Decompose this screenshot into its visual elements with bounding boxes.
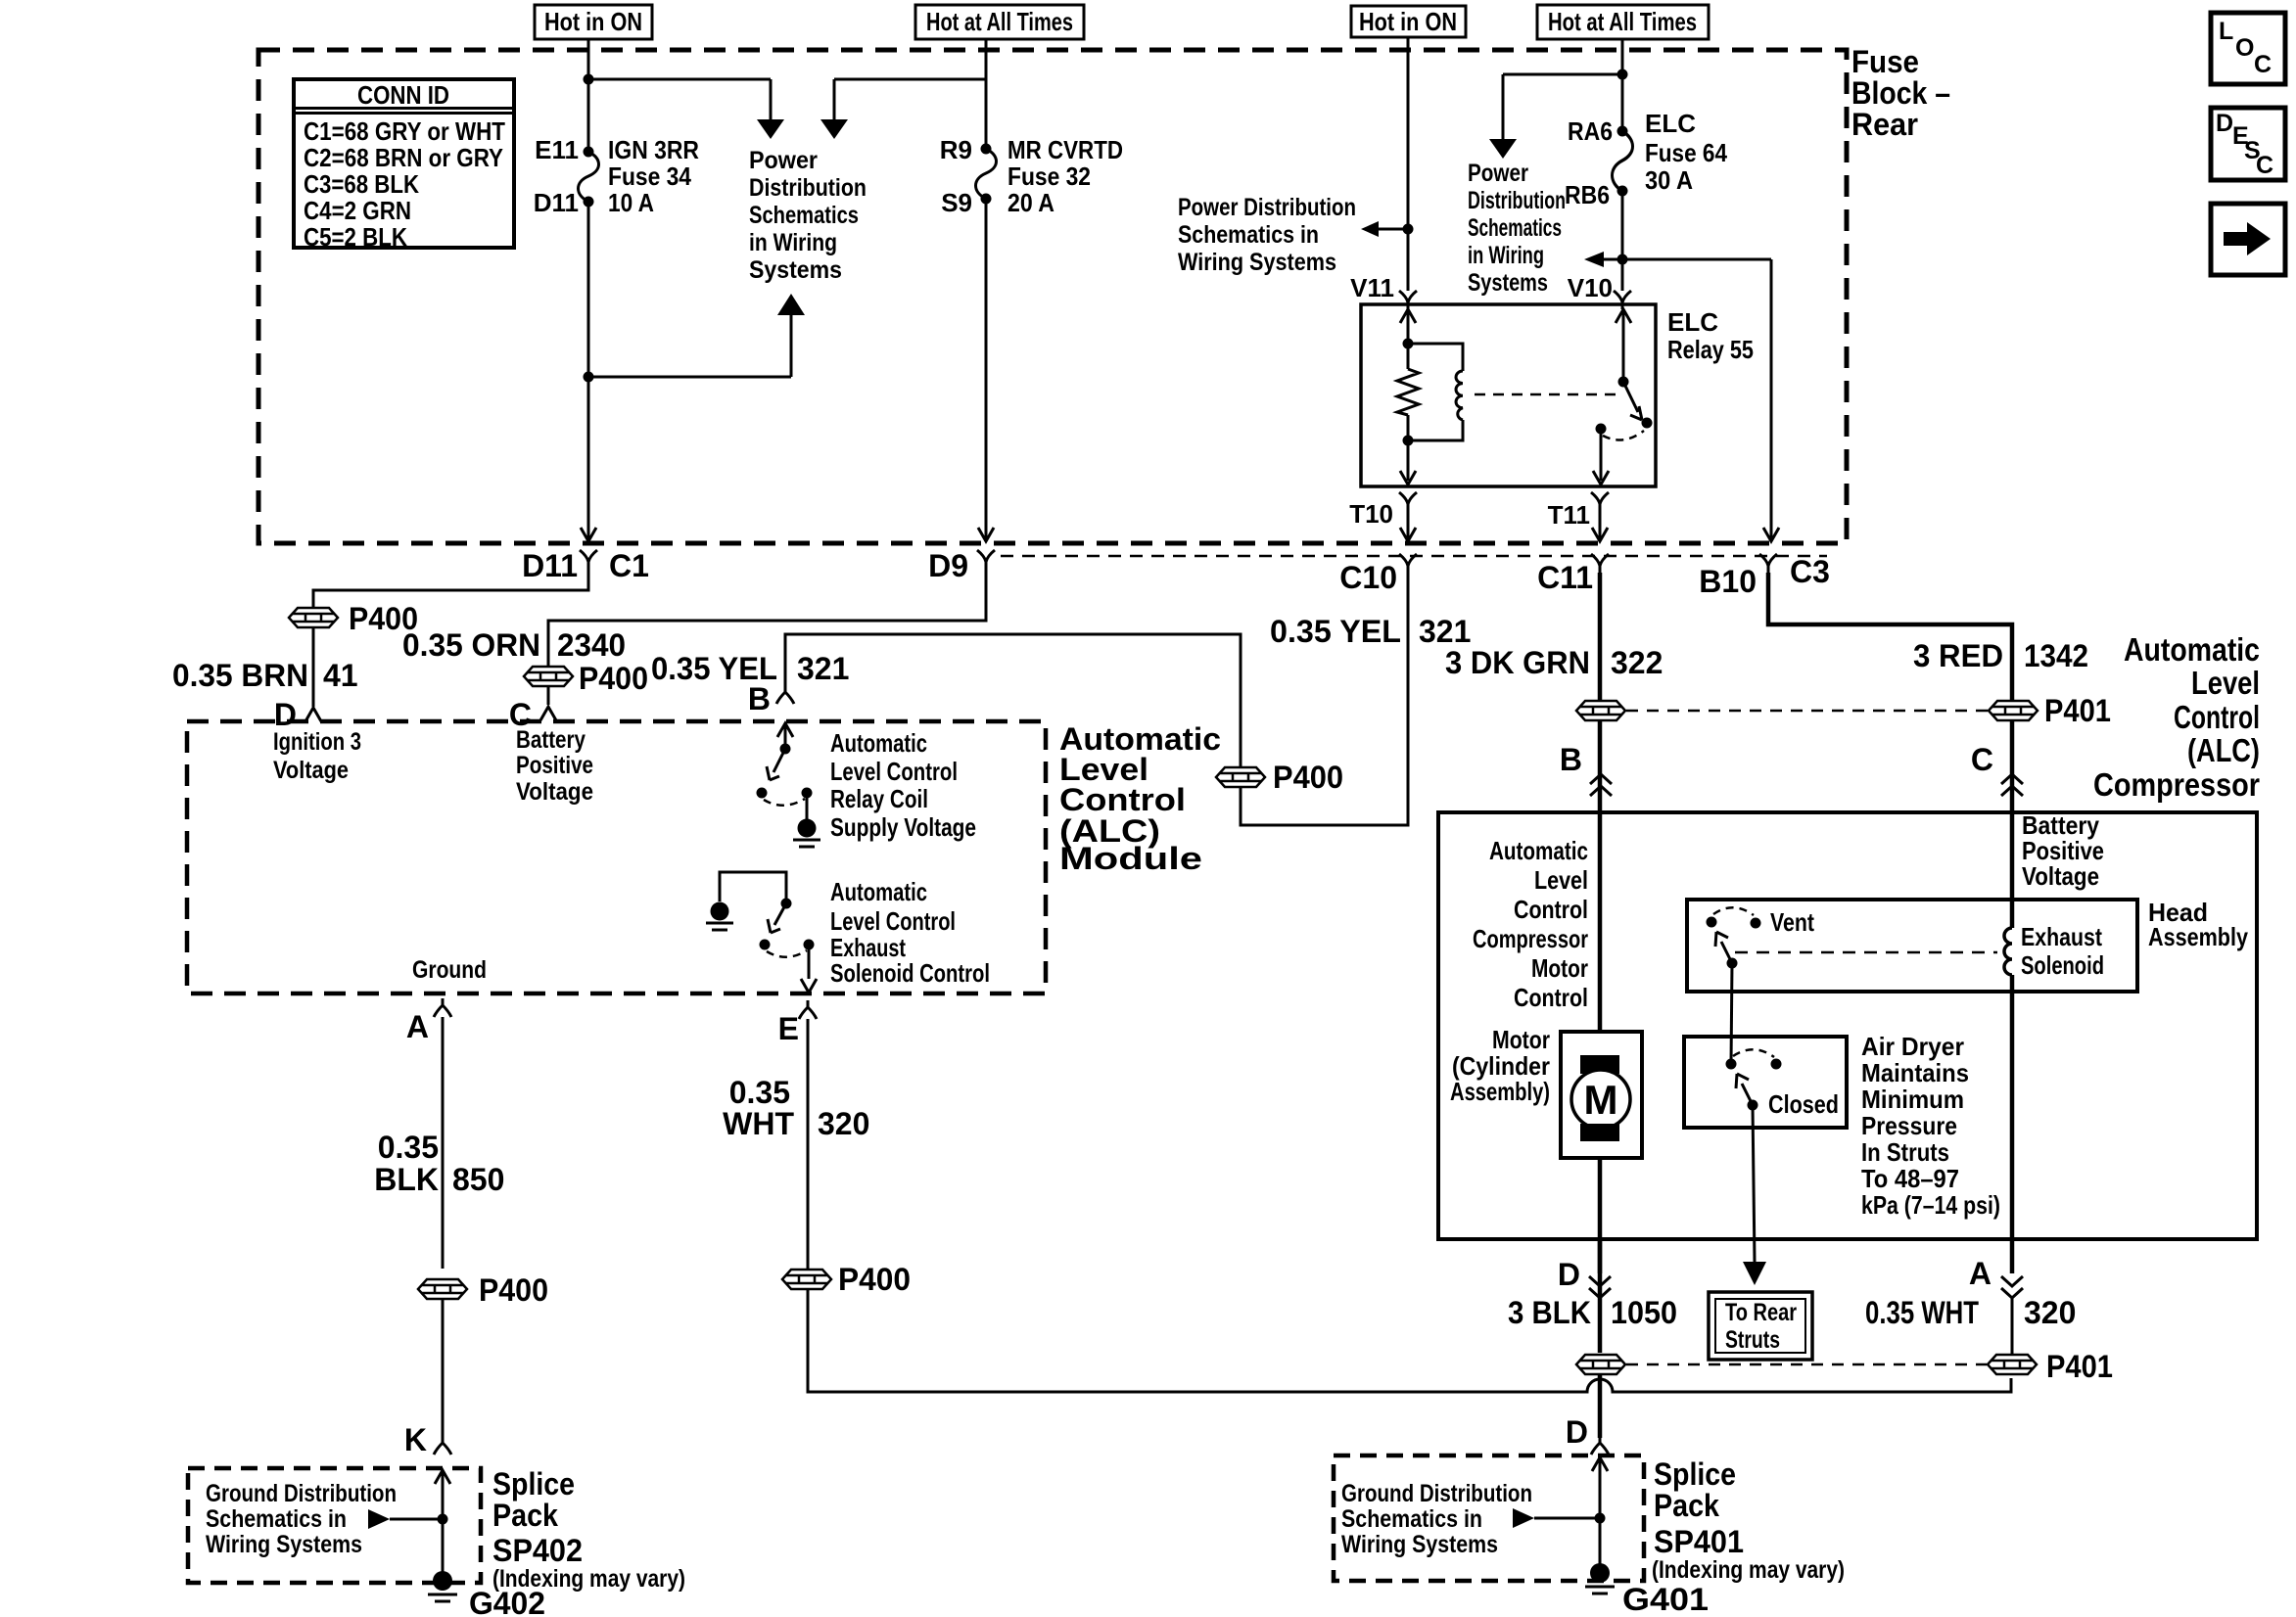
svg-text:Control: Control (2174, 699, 2260, 735)
svg-text:C4=2 GRN: C4=2 GRN (304, 196, 411, 225)
svg-text:1342: 1342 (2024, 638, 2088, 673)
wire P400 YEL up and across to pin B (785, 634, 1241, 766)
wire into SP401 with up arrow (1592, 1457, 1608, 1568)
wire exhaust solenoid down to pin A (2010, 975, 2015, 1273)
svg-text:Automatic: Automatic (830, 728, 927, 758)
wire P400 to pin C (547, 687, 550, 705)
fuse F34 IGN 3RR terminal E11 (584, 147, 594, 158)
label Splice Pack SP401 (Indexing may vary) (1652, 1456, 1845, 1584)
fuse F64 ELC terminal RA6 (1617, 126, 1628, 137)
fuse F64 terminal RB6 (1617, 186, 1628, 197)
motor commutator bottom (1580, 1124, 1619, 1141)
svg-text:Schematics in: Schematics in (1178, 221, 1319, 249)
actuation dashed link to exhaust solenoid (1735, 951, 1997, 954)
svg-text:O: O (2235, 34, 2254, 62)
vent switch travel arc (1713, 907, 1754, 915)
S2 travel arc (767, 950, 807, 957)
arrow into fuse block edge at B10 (1763, 528, 1779, 541)
svg-text:Automatic: Automatic (2124, 631, 2260, 668)
pin B chevrons (1590, 774, 1612, 796)
svg-text:V11: V11 (1350, 273, 1394, 302)
connector V11 (1399, 291, 1417, 309)
wire C11 down to P401 (DK GRN) (1598, 573, 1603, 700)
wire motor to pin D (1598, 1158, 1603, 1273)
svg-text:IGN 3RR: IGN 3RR (608, 135, 699, 164)
svg-text:C2=68 BRN or GRY: C2=68 BRN or GRY (304, 143, 503, 172)
arrow into fuse block edge at D9 (978, 528, 994, 541)
ALC module dashed box (187, 721, 1046, 993)
svg-text:Wiring Systems: Wiring Systems (1341, 1531, 1498, 1558)
svg-text:Ground Distribution: Ground Distribution (1341, 1480, 1532, 1507)
label Exhaust Solenoid (2021, 922, 2104, 980)
label circuit 0.35 BRN 41 (172, 658, 358, 693)
wire branch from Hot at All Times to power distribution arrow (834, 79, 986, 119)
svg-text:Pack: Pack (1654, 1488, 1719, 1523)
legend DESC box (2211, 108, 2285, 180)
svg-text:Motor: Motor (1492, 1025, 1550, 1054)
svg-text:L: L (2219, 18, 2233, 45)
arrow down to Power Distribution (757, 119, 784, 139)
svg-text:(ALC): (ALC) (2187, 732, 2260, 768)
arrow left to Power Distribution Schematics (1361, 221, 1379, 237)
svg-text:321: 321 (797, 651, 849, 686)
svg-text:321: 321 (1419, 614, 1471, 649)
wire S2 output to pin E (808, 945, 811, 979)
svg-text:P400: P400 (1273, 760, 1343, 795)
relay switch moving contact (1642, 418, 1653, 429)
svg-text:G401: G401 (1622, 1582, 1709, 1617)
connector T10 (1399, 492, 1417, 511)
label circuit 3 DK GRN 322 (1445, 645, 1663, 680)
svg-text:C11: C11 (1537, 560, 1593, 595)
wire below resistor (1407, 415, 1410, 481)
pin A chevrons (2001, 1276, 2023, 1298)
svg-text:RB6: RB6 (1565, 180, 1610, 209)
svg-text:To 48–97: To 48–97 (1861, 1164, 1959, 1193)
svg-text:ELC: ELC (1645, 109, 1696, 138)
svg-text:Voltage: Voltage (2022, 861, 2099, 891)
svg-text:SP402: SP402 (492, 1533, 583, 1568)
svg-text:Hot in ON: Hot in ON (1359, 7, 1457, 36)
svg-text:Exhaust: Exhaust (2021, 922, 2102, 951)
arrow exit at pin E (801, 979, 817, 993)
svg-text:Motor: Motor (1531, 953, 1588, 983)
label fuse 32 (940, 135, 1123, 217)
motor box (1561, 1032, 1642, 1158)
svg-text:C1=68 GRY or WHT: C1=68 GRY or WHT (304, 116, 505, 146)
resistor (relay coil suppression) (1397, 369, 1419, 415)
label fuse 34 (534, 135, 699, 217)
wire pin E down to P400 (807, 1019, 810, 1269)
svg-text:Battery: Battery (516, 726, 586, 754)
svg-text:Control: Control (1514, 983, 1588, 1012)
connector pin A (434, 998, 451, 1017)
power tag "Hot in ON" box 1 (535, 5, 652, 39)
svg-text:D: D (274, 697, 297, 732)
arrow to rear struts (1743, 1262, 1766, 1285)
wire B10 drop down to fuse block edge (1770, 259, 1773, 538)
label Splice Pack SP402 (Indexing may vary) (492, 1466, 685, 1593)
wire from Hot in ON box1 down to fuse 34 (587, 39, 590, 147)
svg-text:Maintains: Maintains (1861, 1058, 1969, 1087)
svg-text:BLK: BLK (374, 1162, 439, 1197)
svg-text:ELC: ELC (1667, 307, 1718, 337)
wire relay left branch (1407, 309, 1410, 369)
svg-text:R9: R9 (940, 135, 972, 164)
svg-text:1050: 1050 (1611, 1295, 1677, 1330)
connector V10 (1614, 291, 1631, 309)
svg-text:Control: Control (1514, 895, 1588, 924)
svg-text:322: 322 (1611, 645, 1663, 680)
label circuit 0.35 YEL 321 (C10) (1270, 614, 1471, 649)
ground G402 (428, 1571, 457, 1601)
svg-text:Distribution: Distribution (749, 174, 867, 202)
svg-text:0.35 BRN: 0.35 BRN (172, 658, 308, 693)
svg-text:Power: Power (1468, 160, 1528, 187)
wire branch left to arrow (1503, 74, 1622, 139)
svg-text:0.35 YEL: 0.35 YEL (1270, 614, 1401, 649)
svg-text:(Indexing may vary): (Indexing may vary) (1652, 1556, 1845, 1584)
switch S1 blade (767, 749, 785, 780)
wire P401 RED to compressor pin C (2010, 721, 2015, 928)
svg-text:D11: D11 (522, 548, 578, 583)
svg-text:T11: T11 (1548, 500, 1590, 530)
svg-text:RA6: RA6 (1568, 116, 1613, 146)
svg-text:Struts: Struts (1725, 1326, 1780, 1354)
wire across to B10 drop with left arrow (1604, 258, 1771, 261)
arrow up to Power Distribution (777, 294, 805, 315)
wire from Hot at All Times box2 down to fuse 32 (985, 39, 988, 144)
svg-text:Schematics: Schematics (1468, 214, 1562, 242)
svg-text:Wiring Systems: Wiring Systems (206, 1531, 362, 1558)
svg-text:D11: D11 (534, 188, 579, 217)
svg-text:C: C (2254, 51, 2272, 78)
splice pack SP402 dashed box (188, 1468, 481, 1583)
ground G401 (1585, 1563, 1615, 1594)
S1 fixed contact right (802, 788, 813, 799)
arrow down to Power Distribution (V10 side) (1489, 139, 1517, 159)
legend LOC box (2211, 13, 2285, 84)
svg-text:C: C (1971, 742, 1993, 777)
svg-text:Ignition 3: Ignition 3 (273, 728, 361, 756)
svg-text:Schematics in: Schematics in (206, 1505, 347, 1533)
connector splice K (434, 1436, 451, 1455)
connector C11 (1591, 554, 1609, 573)
label ELC Relay 55 (1667, 307, 1754, 364)
S1 travel arc (764, 799, 805, 806)
vent switch pivot (1727, 958, 1738, 969)
svg-text:3 RED: 3 RED (1913, 638, 2003, 673)
arrow left at V10 (1584, 252, 1604, 267)
label Automatic Level Control Compressor Motor Control (1473, 836, 1588, 1012)
relay switch fixed contact (1596, 424, 1607, 435)
junction in SP402 (438, 1514, 448, 1525)
wire ground to S2 pivot (720, 872, 786, 903)
motor commutator top (1580, 1055, 1619, 1074)
svg-text:Voltage: Voltage (273, 757, 349, 784)
node relay switch pivot (1618, 377, 1629, 388)
wire relay switch common (1622, 309, 1625, 382)
connector B10/C3 (1759, 554, 1777, 573)
power tag "Hot in ON" box 3 (1351, 6, 1466, 37)
svg-text:P400: P400 (838, 1262, 911, 1297)
svg-text:D9: D9 (928, 548, 968, 583)
svg-text:0.35: 0.35 (729, 1075, 790, 1110)
label Automatic Level Control Relay Coil Supply Voltage (830, 728, 976, 842)
label D11 / C1 (522, 548, 649, 583)
svg-text:Compressor: Compressor (2093, 766, 2260, 803)
splice pack SP401 dashed box (1334, 1455, 1644, 1581)
svg-text:Closed: Closed (1768, 1089, 1839, 1119)
connector D9 (977, 550, 995, 569)
fuse F32 terminal S9 (981, 194, 992, 205)
motor M circle (1571, 1070, 1630, 1129)
svg-text:C1: C1 (609, 548, 649, 583)
svg-text:M: M (1584, 1077, 1618, 1123)
svg-text:Schematics in: Schematics in (1341, 1505, 1482, 1533)
relay switch travel arc (1603, 431, 1644, 439)
svg-text:kPa (7–14 psi): kPa (7–14 psi) (1861, 1190, 2000, 1220)
fuse F64 element (1613, 131, 1633, 191)
node relay coil top (1403, 339, 1414, 349)
svg-text:Wiring Systems: Wiring Systems (1178, 249, 1336, 276)
arrow relay output exit (1593, 471, 1609, 485)
connector pin B of ALC module (776, 685, 794, 704)
svg-text:B: B (748, 681, 771, 716)
svg-text:Splice: Splice (1654, 1456, 1736, 1492)
relay actuation dashed link (1475, 393, 1616, 396)
svg-text:Relay 55: Relay 55 (1667, 335, 1754, 364)
label Fuse Block - Rear (1851, 44, 1950, 142)
wire air dryer down to rear struts (1753, 1105, 1755, 1262)
junction V10 branch (1617, 254, 1628, 265)
svg-text:C5=2 BLK: C5=2 BLK (304, 222, 407, 252)
wire into SP402 with up arrow (435, 1470, 450, 1576)
svg-text:Positive: Positive (516, 752, 593, 779)
svg-text:30 A: 30 A (1645, 165, 1693, 195)
svg-text:A: A (1969, 1256, 1991, 1291)
arrow T11 into edge (1592, 528, 1608, 541)
svg-text:Ground: Ground (412, 956, 487, 984)
svg-text:SP401: SP401 (1654, 1524, 1744, 1559)
svg-text:Solenoid: Solenoid (2021, 950, 2104, 980)
svg-text:Automatic: Automatic (830, 877, 927, 906)
connector C10 (1399, 554, 1417, 573)
arrow relay branch exit (1400, 471, 1416, 485)
connector P401 (DK GRN side) (1576, 701, 1625, 720)
arrow T10 into edge (1400, 528, 1416, 541)
label Automatic Level Control Exhaust Solenoid Control (830, 877, 990, 988)
svg-text:Fuse 64: Fuse 64 (1645, 138, 1727, 167)
vent switch fixed contact left (1707, 917, 1717, 928)
switch S1 relay coil supply: entry arrow (777, 723, 793, 749)
svg-text:Voltage: Voltage (516, 778, 593, 806)
svg-text:in Wiring: in Wiring (749, 229, 837, 256)
wire branch up to Power Distribution text (588, 315, 791, 377)
svg-text:MR CVRTD: MR CVRTD (1007, 135, 1123, 164)
svg-text:320: 320 (2024, 1295, 2076, 1330)
connector P400 (WHT wire) (782, 1270, 831, 1289)
svg-text:Level Control: Level Control (830, 757, 958, 786)
label circuit 0.35 YEL 321 (pin B) (651, 651, 849, 686)
wire T10 to edge (1407, 511, 1410, 538)
svg-text:K: K (404, 1422, 427, 1457)
svg-text:Hot at All Times: Hot at All Times (1548, 7, 1697, 36)
branch arrow in SP402 (390, 1518, 443, 1521)
svg-text:B10: B10 (1699, 564, 1757, 599)
junction in SP401 (1595, 1513, 1606, 1524)
wire from Hot in ON box3 down to V11 (1407, 37, 1410, 291)
relay coil branch entry arrow (1400, 309, 1416, 323)
wire P400 to K (442, 1300, 445, 1436)
svg-text:C3: C3 (1790, 554, 1830, 589)
svg-text:G402: G402 (469, 1586, 545, 1617)
legend forward arrow box (2211, 204, 2285, 275)
air dryer switch pivot (1748, 1100, 1758, 1111)
svg-text:3 BLK: 3 BLK (1508, 1295, 1591, 1330)
relay ELC Relay 55 box (1361, 304, 1656, 486)
svg-text:Compressor: Compressor (1473, 924, 1588, 953)
svg-text:Level: Level (1534, 865, 1588, 895)
label Ground Distribution Schematics in Wiring Systems (SP402) (206, 1480, 397, 1558)
wire stub to left arrow (1379, 228, 1408, 231)
arrow down to Power Distribution (second) (820, 119, 848, 139)
vent switch blade (1715, 932, 1732, 963)
svg-text:Assembly: Assembly (2148, 922, 2248, 951)
svg-text:Block –: Block – (1851, 75, 1950, 111)
branch arrow in SP401 (1534, 1517, 1600, 1520)
svg-text:WHT: WHT (723, 1106, 794, 1141)
connector D11/C1 (580, 550, 597, 569)
wire WHT across bottom with hop to pin A of compressor (808, 1290, 2011, 1392)
label Power Distribution Schematics (left) (749, 147, 867, 284)
fuse F32 MR CVRTD terminal R9 (981, 144, 992, 155)
switch S2 blade (768, 903, 786, 933)
wire pin D to P401 (1598, 1239, 1603, 1353)
air dryer switch travel arc (1733, 1049, 1774, 1057)
wire D11 to P400 (313, 569, 588, 607)
connector P401 (RED side) (1989, 701, 2038, 720)
label Air Dryer Maintains Minimum Pressure In Struts To 48-97 kPa (7-14 psi) (1861, 1032, 2000, 1220)
svg-text:Schematics: Schematics (749, 202, 859, 229)
svg-text:in Wiring: in Wiring (1468, 242, 1544, 269)
svg-text:S9: S9 (941, 188, 972, 217)
label Ground Distribution Schematics in Wiring Systems (SP401) (1341, 1480, 1532, 1558)
svg-text:T10: T10 (1349, 499, 1393, 529)
connector P400 (BLK wire) (418, 1279, 467, 1299)
connector T11 (1591, 492, 1609, 511)
node relay coil bottom (1403, 436, 1414, 446)
wire T11 to edge (1599, 511, 1602, 538)
fuse F34 terminal D11 (584, 197, 594, 208)
svg-text:V10: V10 (1568, 273, 1613, 302)
svg-text:C10: C10 (1339, 560, 1397, 595)
label Battery Positive Voltage (module) (516, 726, 593, 806)
vent switch fixed contact right (1751, 918, 1761, 929)
svg-text:Ground Distribution: Ground Distribution (206, 1480, 397, 1507)
svg-text:C: C (2256, 152, 2273, 179)
relay switch entry arrow (1616, 309, 1631, 323)
svg-text:In Struts: In Struts (1861, 1137, 1949, 1167)
label circuit 0.35 WHT 320 (pin A) (1865, 1295, 2076, 1330)
relay coil L1 (1408, 344, 1463, 440)
svg-text:Systems: Systems (749, 256, 842, 284)
connector P401 (BLK side) (1576, 1355, 1625, 1374)
svg-text:D: D (1566, 1414, 1588, 1450)
power tag "Hot at All Times" box 2 (915, 5, 1084, 39)
svg-text:CONN ID: CONN ID (357, 80, 449, 110)
wire fuse 34 down to connector D11 (587, 202, 590, 538)
ALC compressor box (1438, 812, 2257, 1239)
wire P400 to pin D (312, 628, 315, 707)
wire pin A down to P400 (442, 1017, 445, 1269)
svg-text:E11: E11 (535, 135, 579, 164)
wire C10 down and across to P400 YEL (1241, 573, 1408, 825)
pin C chevrons (2001, 774, 2023, 796)
svg-text:P401: P401 (2044, 693, 2111, 728)
label circuit 3 BLK 1050 (1508, 1295, 1677, 1330)
wire RB6 down to V10 (1621, 191, 1624, 291)
junction on ELC fuse wire (1617, 69, 1628, 80)
svg-text:850: 850 (452, 1162, 504, 1197)
svg-text:Minimum: Minimum (1861, 1085, 1964, 1114)
svg-text:Pressure: Pressure (1861, 1111, 1957, 1140)
svg-text:0.35: 0.35 (378, 1130, 439, 1165)
wire from Hot at All Times box4 down (1621, 39, 1624, 127)
svg-text:A: A (406, 1009, 429, 1044)
head assembly box (1687, 900, 2137, 992)
wire S1 right contact to ground (806, 793, 809, 819)
svg-text:10 A: 10 A (608, 188, 654, 217)
ground (relay coil supply) (793, 819, 820, 848)
svg-text:Distribution: Distribution (1468, 187, 1566, 214)
wire vent switch to air dryer switch (1731, 963, 1732, 1064)
wire relay output (1600, 429, 1603, 481)
svg-text:0.35 ORN: 0.35 ORN (402, 627, 540, 663)
svg-text:D: D (2216, 110, 2233, 137)
label circuit 0.35 WHT 320 (723, 1075, 869, 1141)
svg-text:D: D (1558, 1257, 1580, 1292)
svg-text:Level: Level (2191, 665, 2260, 701)
wire fuse 32 down to connector D9 (985, 199, 988, 538)
fuse block Fuse Block - Rear dashed box (258, 50, 1847, 543)
air dryer switch contact right (1771, 1059, 1782, 1070)
junction on V11 wire (1403, 224, 1414, 235)
svg-text:B: B (1560, 742, 1582, 777)
connector P401 dashed link (bottom) (1626, 1363, 1987, 1366)
svg-text:3 DK GRN: 3 DK GRN (1445, 645, 1590, 680)
node S1 pivot (780, 744, 791, 755)
svg-text:Air Dryer: Air Dryer (1861, 1032, 1964, 1061)
wire BLK from P401 down to splice pack (1598, 1375, 1603, 1438)
label ELC Fuse 64 30 A (1565, 109, 1727, 209)
S2 fixed contact right (804, 940, 815, 950)
svg-text:Level Control: Level Control (830, 906, 956, 936)
ground (exhaust solenoid switch) (706, 902, 733, 931)
svg-text:C3=68 BLK: C3=68 BLK (304, 169, 419, 199)
label Power Distribution Schematics in Wiring Systems (V11) (1178, 194, 1356, 276)
svg-text:Rear: Rear (1851, 107, 1918, 142)
svg-text:To Rear: To Rear (1725, 1299, 1797, 1326)
svg-text:Pack: Pack (492, 1498, 558, 1533)
label Automatic Level Control (ALC) Module (1059, 721, 1221, 876)
junction for return branch (584, 372, 594, 383)
svg-text:Automatic: Automatic (1489, 836, 1588, 865)
air dryer box (1684, 1037, 1847, 1128)
svg-text:20 A: 20 A (1007, 188, 1054, 217)
fuse F34 element (579, 152, 599, 202)
S1 fixed contact left (757, 788, 768, 799)
